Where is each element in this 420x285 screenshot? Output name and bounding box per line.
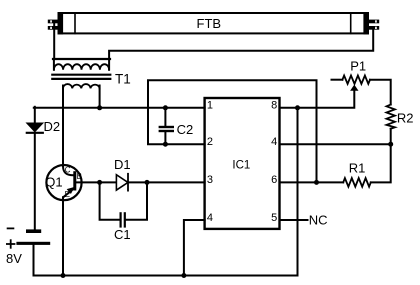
wire pin 8 row to P1 wiper [280, 91, 355, 108]
wire tube right pins down and across to T1 primary right [109, 29, 373, 59]
wire D2 to battery negative [34, 134, 36, 230]
svg-text:P1: P1 [350, 58, 366, 73]
svg-text:Q1: Q1 [45, 175, 62, 190]
tube right pin lower [369, 26, 379, 30]
node emitter to bottom rail [61, 273, 66, 278]
svg-text:D1: D1 [114, 157, 131, 172]
potentiometer P1 [332, 76, 371, 91]
transformer T1 secondary winding [63, 84, 100, 108]
svg-text:NC: NC [309, 212, 328, 227]
tube left pin lower [48, 26, 58, 30]
transformer T1 primary winding [53, 59, 110, 70]
wire P1 right to R2 top [370, 80, 391, 105]
svg-text:C2: C2 [177, 122, 194, 137]
node base D1 C1 junction [97, 180, 102, 185]
svg-text:FTB: FTB [197, 16, 222, 31]
node C2 top to rail [163, 105, 168, 110]
wire rail corner down to D2 [34, 107, 36, 124]
svg-text:8V: 8V [6, 251, 22, 266]
svg-text:C1: C1 [114, 227, 131, 242]
wire Q1 emitter to bottom rail [62, 197, 64, 275]
wire T1 secondary left down to Q1 collector [62, 86, 64, 167]
node pin2/6 vertical to pin 6 row [314, 180, 319, 185]
svg-text:3: 3 [207, 174, 213, 186]
transistor Q1 [46, 165, 81, 200]
wire R2 bottom to R1 right [371, 129, 391, 183]
svg-text:4: 4 [271, 136, 277, 148]
wire battery positive to bottom rail and up right side to pin 8 row [34, 108, 298, 276]
svg-text:D2: D2 [44, 119, 61, 134]
svg-text:R2: R2 [397, 111, 414, 126]
svg-text:2: 2 [207, 136, 213, 148]
svg-text:4: 4 [207, 212, 213, 224]
wire Q1 base / pin 3 row [76, 181, 204, 183]
wire pin 5 to NC [280, 219, 308, 221]
svg-text:E: E [65, 190, 70, 199]
svg-text:8: 8 [271, 100, 277, 112]
tube left pin upper [48, 20, 58, 24]
svg-text:B: B [77, 172, 82, 181]
resistor R1 [343, 178, 371, 187]
tube right pin upper [369, 20, 379, 24]
svg-text:R1: R1 [349, 161, 366, 176]
svg-text:5: 5 [271, 212, 277, 224]
wire pin 4 right row to R2 bottom [280, 143, 391, 145]
capacitor C1 [100, 182, 147, 226]
wire top rail (pin 1 net) [34, 107, 205, 109]
node D1 cathode C1 junction [145, 180, 150, 185]
transformer T1 core [52, 75, 110, 79]
svg-text:IC1: IC1 [232, 159, 250, 171]
wire pin 6 row to R1 [280, 181, 344, 183]
diode D1 [116, 174, 128, 191]
battery 8V [7, 228, 50, 247]
resistor R2 [387, 105, 395, 129]
node right vertical to pin 8 row [295, 105, 300, 110]
wire pin 2 loop to pin 6 [148, 80, 317, 182]
svg-text:T1: T1 [115, 71, 131, 86]
node pin4 wire to bottom rail [181, 273, 186, 278]
fluorescent tube FTB body [58, 12, 370, 34]
node pin4 row R1 R2 junction [388, 142, 393, 147]
svg-text:C: C [65, 165, 71, 174]
node C2 bottom to pin 2 wire [163, 142, 168, 147]
wire IC pin 4 left to bottom rail [184, 220, 205, 276]
svg-text:1: 1 [207, 100, 213, 112]
capacitor C2 [160, 108, 173, 144]
svg-text:6: 6 [271, 174, 277, 186]
wire tube left pins to T1 primary [53, 22, 55, 59]
node T1 secondary to rail [97, 105, 102, 110]
IC U1 box [205, 98, 280, 229]
diode D2 [27, 123, 43, 133]
